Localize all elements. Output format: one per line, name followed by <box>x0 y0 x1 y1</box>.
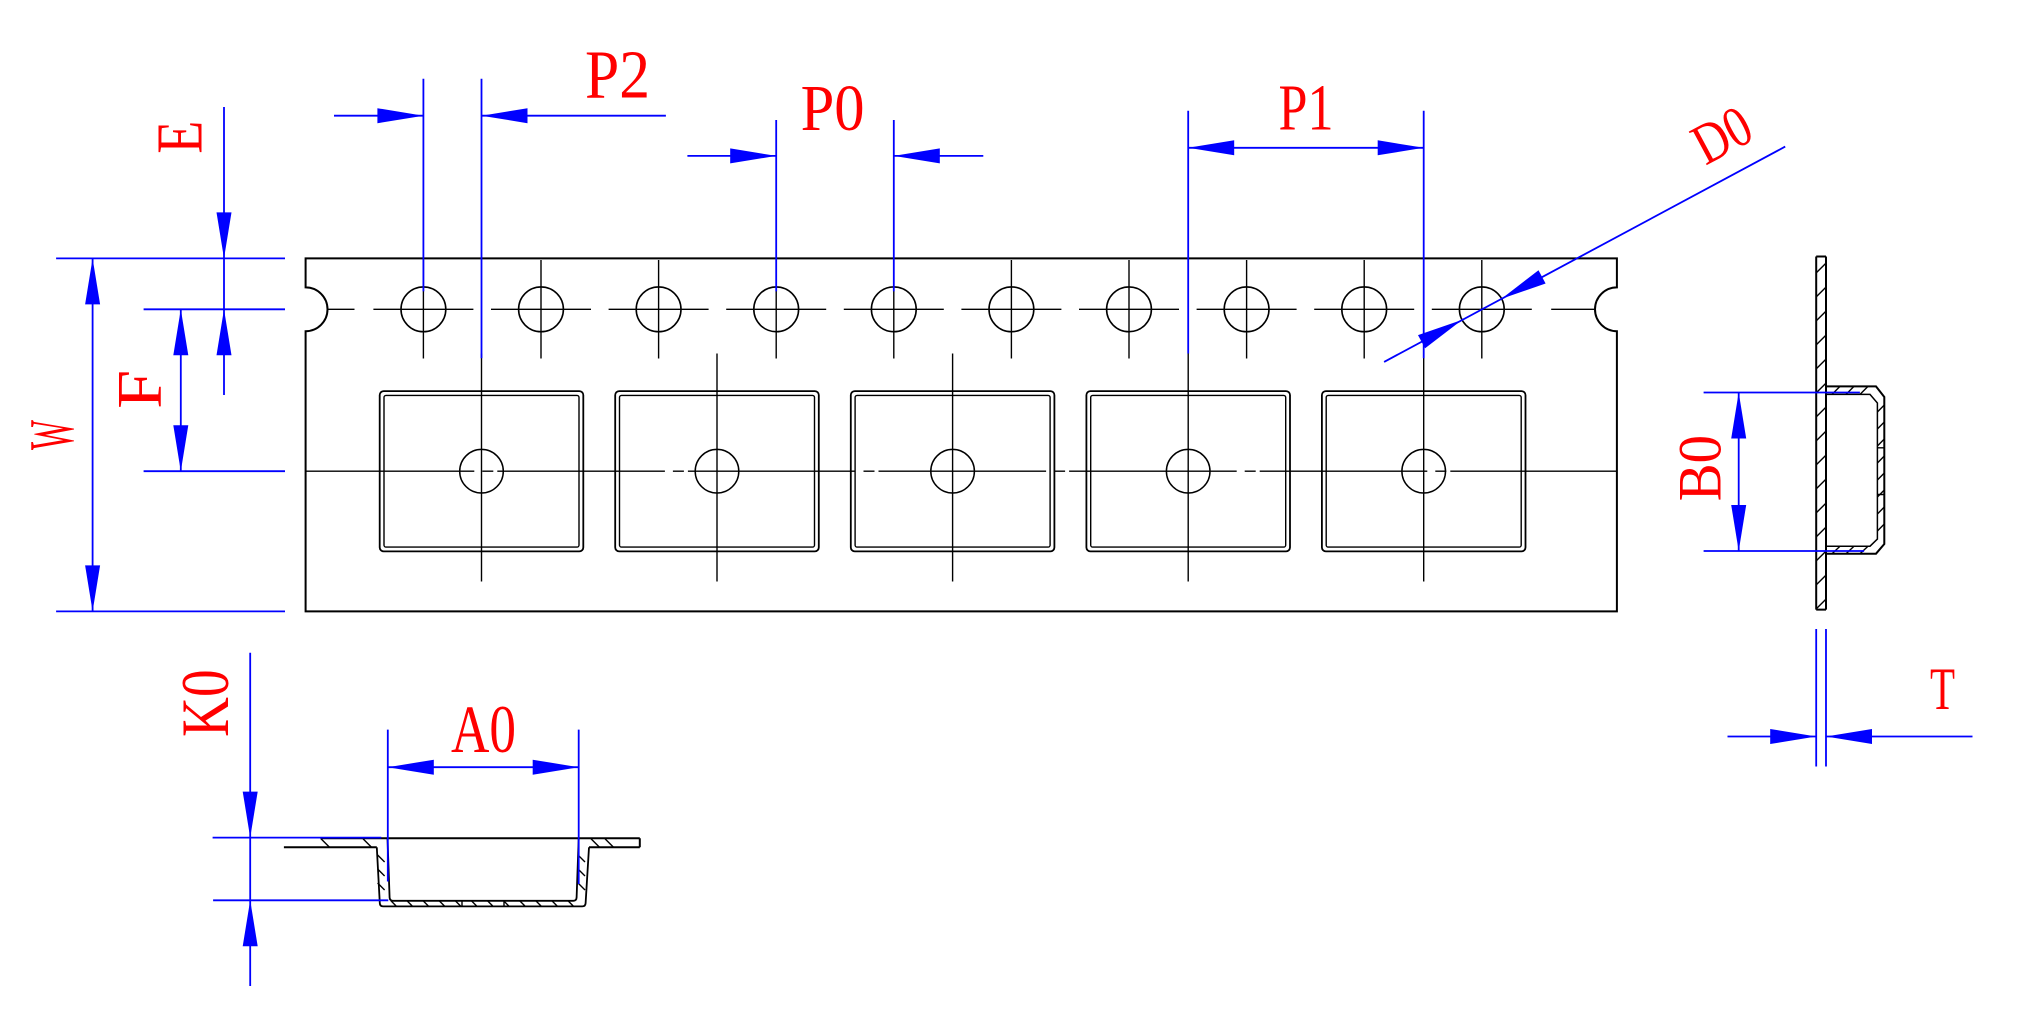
pocket 1 center hole <box>460 449 504 493</box>
pocket 4 outer rim <box>1086 391 1290 551</box>
dimension A0 line <box>388 766 579 768</box>
K0 top arrow <box>243 792 258 838</box>
dimension P0 line <box>687 155 983 157</box>
sprocket hole 4 <box>754 287 799 332</box>
sprocket hole 8 <box>1224 287 1269 332</box>
sprocket hole 3 <box>636 287 681 332</box>
pocket 4 vertical centerline <box>1187 354 1189 582</box>
pocket 5 center hole <box>1402 449 1446 493</box>
sprocket hole 7 <box>1107 287 1152 332</box>
sprocket hole 1 <box>401 287 446 332</box>
pocket 3 center hole <box>931 449 975 493</box>
pocket 5 outer rim <box>1322 391 1526 551</box>
pocket 3 inner rim <box>855 395 1050 547</box>
dimension P1 line <box>1188 147 1424 149</box>
pocket 3 outer rim <box>851 391 1055 551</box>
dimension E line <box>223 107 225 395</box>
B0 bottom arrow <box>1731 505 1746 551</box>
dimension W line <box>92 258 94 611</box>
side section: pocket bulge outer wall <box>1826 386 1884 553</box>
pocket 2 outer rim <box>615 391 819 551</box>
pocket 2 center hole <box>695 449 739 493</box>
sprocket hole 10 vertical centerline <box>1481 260 1483 359</box>
pocket 3 vertical centerline <box>952 354 954 582</box>
dimension K0 line <box>249 653 251 986</box>
D0 upper arrow <box>1502 270 1546 298</box>
svg-text:F: F <box>105 370 175 409</box>
W bottom arrow <box>85 565 100 611</box>
svg-text:B0: B0 <box>1667 435 1734 501</box>
D0 lower arrow <box>1418 320 1462 348</box>
A0 left arrow <box>388 760 434 775</box>
sprocket hole 4 vertical centerline <box>775 260 777 359</box>
side section: tape strip outline <box>1816 257 1826 610</box>
svg-text:W: W <box>17 420 87 450</box>
pocket 4 inner rim <box>1091 395 1286 547</box>
P1 left arrow <box>1188 140 1234 155</box>
sprocket hole 9 <box>1342 287 1387 332</box>
F top arrow <box>173 309 188 355</box>
svg-text:T: T <box>1930 656 1955 722</box>
B0 top arrow <box>1731 393 1746 439</box>
carrier tape top view outline with sprocket edge notches <box>306 258 1617 611</box>
pocket 1 inner rim <box>384 395 579 547</box>
pocket 1 outer rim <box>380 391 584 551</box>
pocket section: cavity outer surface <box>377 847 589 906</box>
svg-text:E: E <box>144 121 217 154</box>
svg-text:A0: A0 <box>451 691 516 767</box>
sprocket hole 9 vertical centerline <box>1363 260 1365 359</box>
A0 right arrow <box>533 760 579 775</box>
extension lines (blue) <box>56 79 1864 901</box>
dimension B0 line <box>1738 393 1740 552</box>
P2 left arrow <box>377 108 423 123</box>
sprocket hole 2 vertical centerline <box>540 260 542 359</box>
pocket section: hatching <box>321 839 614 907</box>
pocket section: bottom slab break marks <box>462 901 504 907</box>
sprocket hole row horizontal dash-dot centerline <box>328 308 1595 310</box>
svg-text:P1: P1 <box>1279 72 1334 145</box>
P2 right arrow <box>482 108 528 123</box>
pocket section: cavity inner surface <box>388 838 579 900</box>
side section: pocket bulge inner wall <box>1826 394 1877 546</box>
dimension F line <box>180 309 182 471</box>
pocket section: right flange bottom surface and end cap <box>589 838 640 847</box>
T left arrow <box>1770 729 1816 744</box>
pocket section: top surface line <box>320 837 639 839</box>
sprocket hole 3 vertical centerline <box>658 260 660 359</box>
pocket 4 center hole <box>1166 449 1210 493</box>
sprocket hole 1 vertical centerline <box>422 260 424 359</box>
sprocket hole 6 vertical centerline <box>1010 260 1012 359</box>
svg-text:P2: P2 <box>585 36 650 112</box>
F bottom arrow <box>173 425 188 471</box>
dimension D0 leader line <box>1384 147 1785 362</box>
sprocket hole 6 <box>989 287 1034 332</box>
dimension T line <box>1728 736 1973 738</box>
T right arrow <box>1826 729 1872 744</box>
pocket 5 vertical centerline <box>1423 354 1425 582</box>
side section: pocket bulge hatching <box>1832 386 1884 553</box>
pocket 2 vertical centerline <box>716 354 718 582</box>
W top arrow <box>85 258 100 304</box>
sprocket hole 10 <box>1459 287 1504 332</box>
P0 right arrow <box>894 148 940 163</box>
svg-text:P0: P0 <box>801 72 865 145</box>
P1 right arrow <box>1378 140 1424 155</box>
sprocket hole 5 <box>871 287 916 332</box>
dimension P2 line <box>334 115 666 117</box>
K0 bottom arrow <box>243 900 258 946</box>
pocket section: left flange bottom surface <box>284 846 377 848</box>
side section: tape strip hatching <box>1816 263 1826 609</box>
E top arrow <box>217 212 232 258</box>
sprocket hole 8 vertical centerline <box>1246 260 1248 359</box>
sprocket hole 7 vertical centerline <box>1128 260 1130 359</box>
sprocket hole 5 vertical centerline <box>893 260 895 359</box>
E bottom arrow <box>217 309 232 355</box>
side section: bulge wall break marks <box>1877 448 1884 495</box>
pocket row horizontal dash-dot centerline <box>306 470 1617 472</box>
pocket 2 inner rim <box>620 395 815 547</box>
pocket 5 inner rim <box>1326 395 1521 547</box>
sprocket hole 2 <box>519 287 564 332</box>
P0 left arrow <box>730 148 776 163</box>
svg-text:K0: K0 <box>167 669 243 737</box>
pocket 1 vertical centerline <box>481 354 483 582</box>
